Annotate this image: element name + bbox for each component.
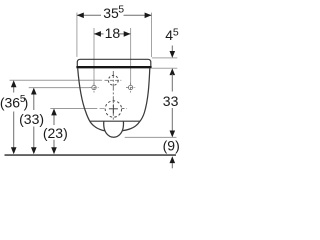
dimension 4.5 lower arrow / 33 top arrow xyxy=(170,68,176,75)
dimension 33 bottom arrow xyxy=(170,131,176,138)
dimension 4.5 upper arrow xyxy=(171,46,173,53)
bowl right silhouette xyxy=(123,68,150,130)
dimension (36.5) bottom arrow xyxy=(11,147,17,154)
svg-text:(23): (23) xyxy=(43,125,68,141)
toilet seat outline xyxy=(77,59,151,67)
outlet circle right arm xyxy=(122,108,127,110)
water supply circle xyxy=(108,75,118,85)
svg-text:(9): (9) xyxy=(163,137,180,153)
svg-text:35: 35 xyxy=(103,5,119,21)
outlet circle xyxy=(105,101,121,117)
dimension 35.5 line xyxy=(77,14,101,16)
dimension 33 line xyxy=(171,74,173,92)
witness line right of seat (x=151.5) xyxy=(151,13,153,57)
svg-text:33: 33 xyxy=(163,93,179,109)
seat bottom thick line xyxy=(76,66,151,68)
svg-text:(36: (36 xyxy=(0,94,20,110)
svg-text:): ) xyxy=(24,94,29,110)
svg-text:(33): (33) xyxy=(19,111,44,127)
outlet circle center cross xyxy=(109,108,118,110)
svg-text:5: 5 xyxy=(118,4,124,16)
reference line bolt height (y=87.6) xyxy=(29,87,90,89)
dimension (23) top arrow xyxy=(51,109,57,116)
vertical centerline axis xyxy=(112,71,114,121)
trap U xyxy=(104,122,124,138)
bowl left silhouette xyxy=(78,68,105,130)
dimension (33) line xyxy=(33,94,35,111)
reference line seat top (y=57.9) xyxy=(152,57,178,59)
svg-text:18: 18 xyxy=(105,25,121,41)
bolt hole right xyxy=(126,83,135,93)
svg-text:5: 5 xyxy=(173,26,179,38)
dimension (36.5) top arrow xyxy=(11,80,17,87)
dimension 18 right arrow xyxy=(124,31,131,37)
reference line ceramic top (y=68.2) xyxy=(152,67,178,69)
witness line 18-left (x=94) xyxy=(93,28,95,84)
reference line trap bottom (y=137.4) xyxy=(125,136,177,138)
dimension 18 line xyxy=(94,33,104,35)
dimension 18 left arrow xyxy=(94,31,101,37)
witness line 18-right (x=130.6) xyxy=(130,28,132,84)
dimension (33) top arrow xyxy=(31,88,37,95)
dimension 35.5 right arrow xyxy=(145,13,152,19)
dimension (33) bottom arrow xyxy=(31,147,37,154)
dimension 35.5 left arrow xyxy=(77,13,84,19)
bolt hole left xyxy=(89,83,98,93)
floor line xyxy=(5,154,177,156)
reference line water supply height (y=80.3) xyxy=(10,79,103,81)
reference line outlet height (y=108.5) xyxy=(50,108,97,110)
dimension (23) line xyxy=(53,115,55,126)
dimension (36.5) line xyxy=(13,86,15,93)
dimension (23) bottom arrow xyxy=(51,147,57,154)
dimension (9) arrow below floor xyxy=(171,161,173,168)
witness line left of seat (x=76.9) xyxy=(76,13,78,57)
bowl bottom rim line xyxy=(90,120,140,122)
